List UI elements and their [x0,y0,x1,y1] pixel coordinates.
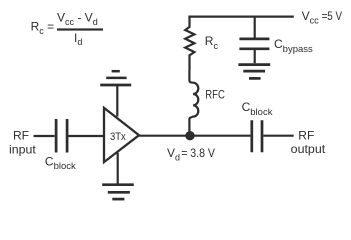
ground (inverted, above amplifier) [100,71,131,85]
capacitor Cbypass plates [239,39,269,49]
wire input capacitor to amplifier [68,135,104,137]
wire RF input lead [34,135,55,137]
svg-text:RF: RF [298,129,314,143]
wire amplifier bottom stem to lower ground [117,153,119,184]
ground (below Cbypass) [238,65,270,79]
svg-text:Vcc: Vcc [302,9,320,25]
svg-text:input: input [9,142,36,156]
capacitor Cblock (input) plates [56,119,67,153]
capacitor Cbypass : bottom lead [254,50,256,63]
svg-text:Cbypass: Cbypass [274,37,313,55]
equation Rc = (Vcc - Vd)/Id : fraction bar [57,28,103,30]
svg-text:RFC: RFC [205,88,225,102]
svg-text:Vd: Vd [167,146,180,163]
node Vd junction dot [185,131,194,140]
capacitor Cblock (output) plates [252,120,262,152]
svg-text:Cblock: Cblock [45,154,76,172]
svg-text:Vcc - Vd: Vcc - Vd [57,10,98,26]
svg-text:Id: Id [74,31,82,47]
svg-text:Rc =: Rc = [31,20,55,37]
resistor Rc [185,16,194,70]
svg-text:=5 V: =5 V [322,9,342,23]
wire amplifier top stem to upper ground [116,86,118,117]
power rail VCC [188,16,293,18]
svg-text:Cblock: Cblock [242,100,273,118]
inductor RFC [189,70,198,136]
ground (below amplifier) [102,185,134,199]
svg-text:3Tx: 3Tx [110,131,126,143]
svg-text:output: output [291,142,326,156]
svg-text:= 3.8 V: = 3.8 V [181,146,215,160]
capacitor Cbypass : top lead [254,17,256,38]
amplifier 3Tx triangle [104,108,139,162]
svg-text:Rc: Rc [205,34,219,51]
wire main signal line from amplifier output to node and output capacitor [139,135,250,137]
svg-text:RF: RF [13,128,29,142]
wire output capacitor to RF output [263,135,293,137]
